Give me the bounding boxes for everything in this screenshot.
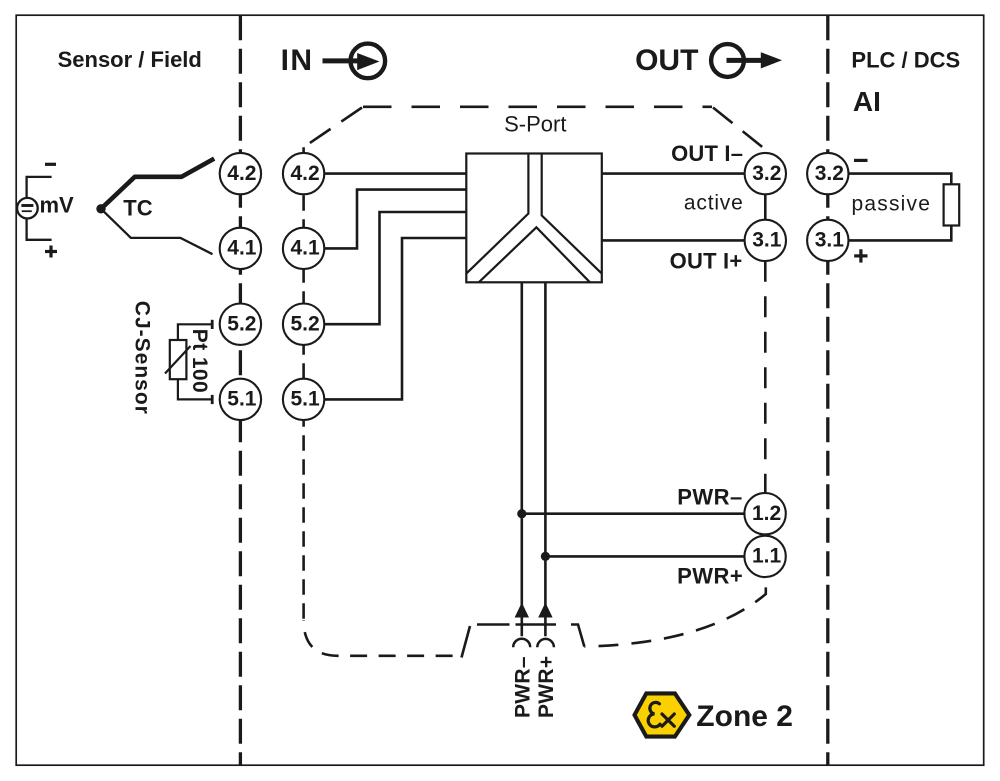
- S-Port boundary bottom-left corner: [304, 620, 459, 656]
- svg-text:Pt 100: Pt 100: [188, 329, 211, 393]
- junction node on PWR-: [517, 509, 526, 518]
- svg-text:3.1: 3.1: [752, 229, 782, 252]
- wire 4.2 to block: [324, 172, 466, 175]
- svg-text:PWR+: PWR+: [535, 656, 558, 718]
- S-Port dashed boundary top: [304, 107, 766, 658]
- terminal 3.2 col3: [745, 153, 786, 194]
- terminal 1.2: [744, 493, 785, 534]
- wire PWR- to 1.2: [522, 512, 745, 515]
- arrowhead on PWR+ wire: [538, 603, 552, 618]
- svg-text:4.2: 4.2: [290, 162, 319, 185]
- connector cup PWR+: [537, 639, 554, 647]
- connector cup PWR-: [513, 639, 530, 647]
- svg-text:4.2: 4.2: [227, 162, 256, 185]
- isolator block U1: [466, 154, 602, 283]
- wire 5.1 to block: [324, 238, 466, 399]
- wire block to 3.2 OUT I-: [602, 172, 745, 175]
- right zone boundary dashed line: [826, 15, 829, 765]
- wire 4.1 to block: [324, 190, 466, 249]
- svg-text:5.2: 5.2: [290, 313, 319, 336]
- terminal 4.1 col2: [283, 228, 324, 269]
- terminal 4.1 col1: [220, 228, 261, 269]
- svg-text:5.2: 5.2: [227, 313, 256, 336]
- svg-text:3.2: 3.2: [752, 162, 781, 185]
- wire PWR+ vertical: [544, 282, 547, 636]
- svg-text:OUT: OUT: [635, 44, 698, 77]
- svg-text:IN: IN: [281, 44, 314, 77]
- terminal 4.2 col1: [220, 153, 261, 194]
- svg-text:3.1: 3.1: [815, 229, 845, 252]
- svg-text:4.1: 4.1: [290, 237, 320, 260]
- svg-text:TC: TC: [123, 195, 152, 220]
- svg-text:Sensor / Field: Sensor / Field: [58, 47, 202, 72]
- svg-text:5.1: 5.1: [290, 388, 320, 411]
- svg-text:OUT I–: OUT I–: [671, 141, 743, 166]
- svg-text:1.1: 1.1: [752, 545, 782, 568]
- wire block to 3.1 OUT I+: [602, 239, 745, 242]
- terminal 3.1 col4: [807, 220, 848, 261]
- svg-text:4.1: 4.1: [227, 237, 257, 260]
- S-Port boundary bottom-right curve: [584, 577, 766, 646]
- svg-text:Zone 2: Zone 2: [696, 700, 793, 733]
- S-Port boundary notch top crossing PWR wires: [477, 625, 584, 647]
- S-Port boundary right vertical between 3.1 and 1.2: [764, 261, 767, 493]
- svg-text:PWR–: PWR–: [677, 485, 743, 510]
- resistor Pt 100: [165, 320, 212, 404]
- terminal 3.2 col4: [807, 153, 848, 194]
- svg-text:S-Port: S-Port: [504, 111, 566, 136]
- S-Port boundary top-left diagonal: [304, 108, 362, 148]
- S-Port boundary notch left diagonal: [462, 626, 471, 658]
- terminal 4.2 col2: [283, 153, 324, 194]
- S-Port boundary left vertical: [302, 147, 305, 626]
- svg-text:mV: mV: [40, 193, 75, 218]
- svg-text:1.2: 1.2: [752, 502, 781, 525]
- mV source symbol: [17, 177, 52, 240]
- S-Port boundary top-right diagonal: [713, 108, 766, 151]
- svg-text:PWR+: PWR+: [677, 564, 743, 589]
- arrowhead on PWR- wire: [515, 603, 529, 618]
- svg-text:OUT I+: OUT I+: [670, 249, 743, 274]
- load resistor on PLC side: [848, 174, 959, 241]
- svg-text:3.2: 3.2: [815, 162, 844, 185]
- thermocouple TC junction dot: [96, 204, 105, 213]
- plus sign below mV: [45, 246, 57, 258]
- terminal 5.1 col1: [220, 379, 261, 420]
- left zone boundary dashed line: [239, 15, 242, 765]
- svg-text:PWR–: PWR–: [512, 656, 535, 718]
- terminal 3.1 col3: [745, 220, 786, 261]
- minus sign near 3.2 PLC: [854, 159, 868, 162]
- minus sign above mV: [45, 163, 56, 166]
- svg-text:5.1: 5.1: [227, 388, 257, 411]
- svg-text:PLC / DCS: PLC / DCS: [851, 47, 960, 72]
- wire PWR+ to 1.1: [545, 555, 744, 558]
- wire 5.2 to block: [324, 212, 466, 324]
- junction node on PWR+: [541, 552, 550, 561]
- plus sign near 3.1 PLC: [854, 249, 867, 262]
- svg-text:CJ-Sensor: CJ-Sensor: [130, 301, 153, 415]
- OUT icon arrow out of circle: [711, 44, 782, 77]
- TC lower leg (thin): [101, 209, 213, 254]
- terminal 5.1 col2: [283, 379, 324, 420]
- wire PWR- vertical: [520, 282, 523, 636]
- svg-text:passive: passive: [852, 192, 932, 215]
- TC upper leg (thick): [101, 159, 214, 209]
- IN icon arrow into circle: [323, 44, 386, 79]
- wire link 3.2 to 3.1: [764, 194, 767, 219]
- terminal 5.2 col2: [283, 304, 324, 345]
- svg-text:AI: AI: [853, 86, 881, 117]
- terminal 5.2 col1: [220, 304, 261, 345]
- terminal 1.1: [744, 536, 785, 577]
- svg-text:active: active: [684, 191, 744, 214]
- Ex hexagon symbol: [635, 693, 690, 736]
